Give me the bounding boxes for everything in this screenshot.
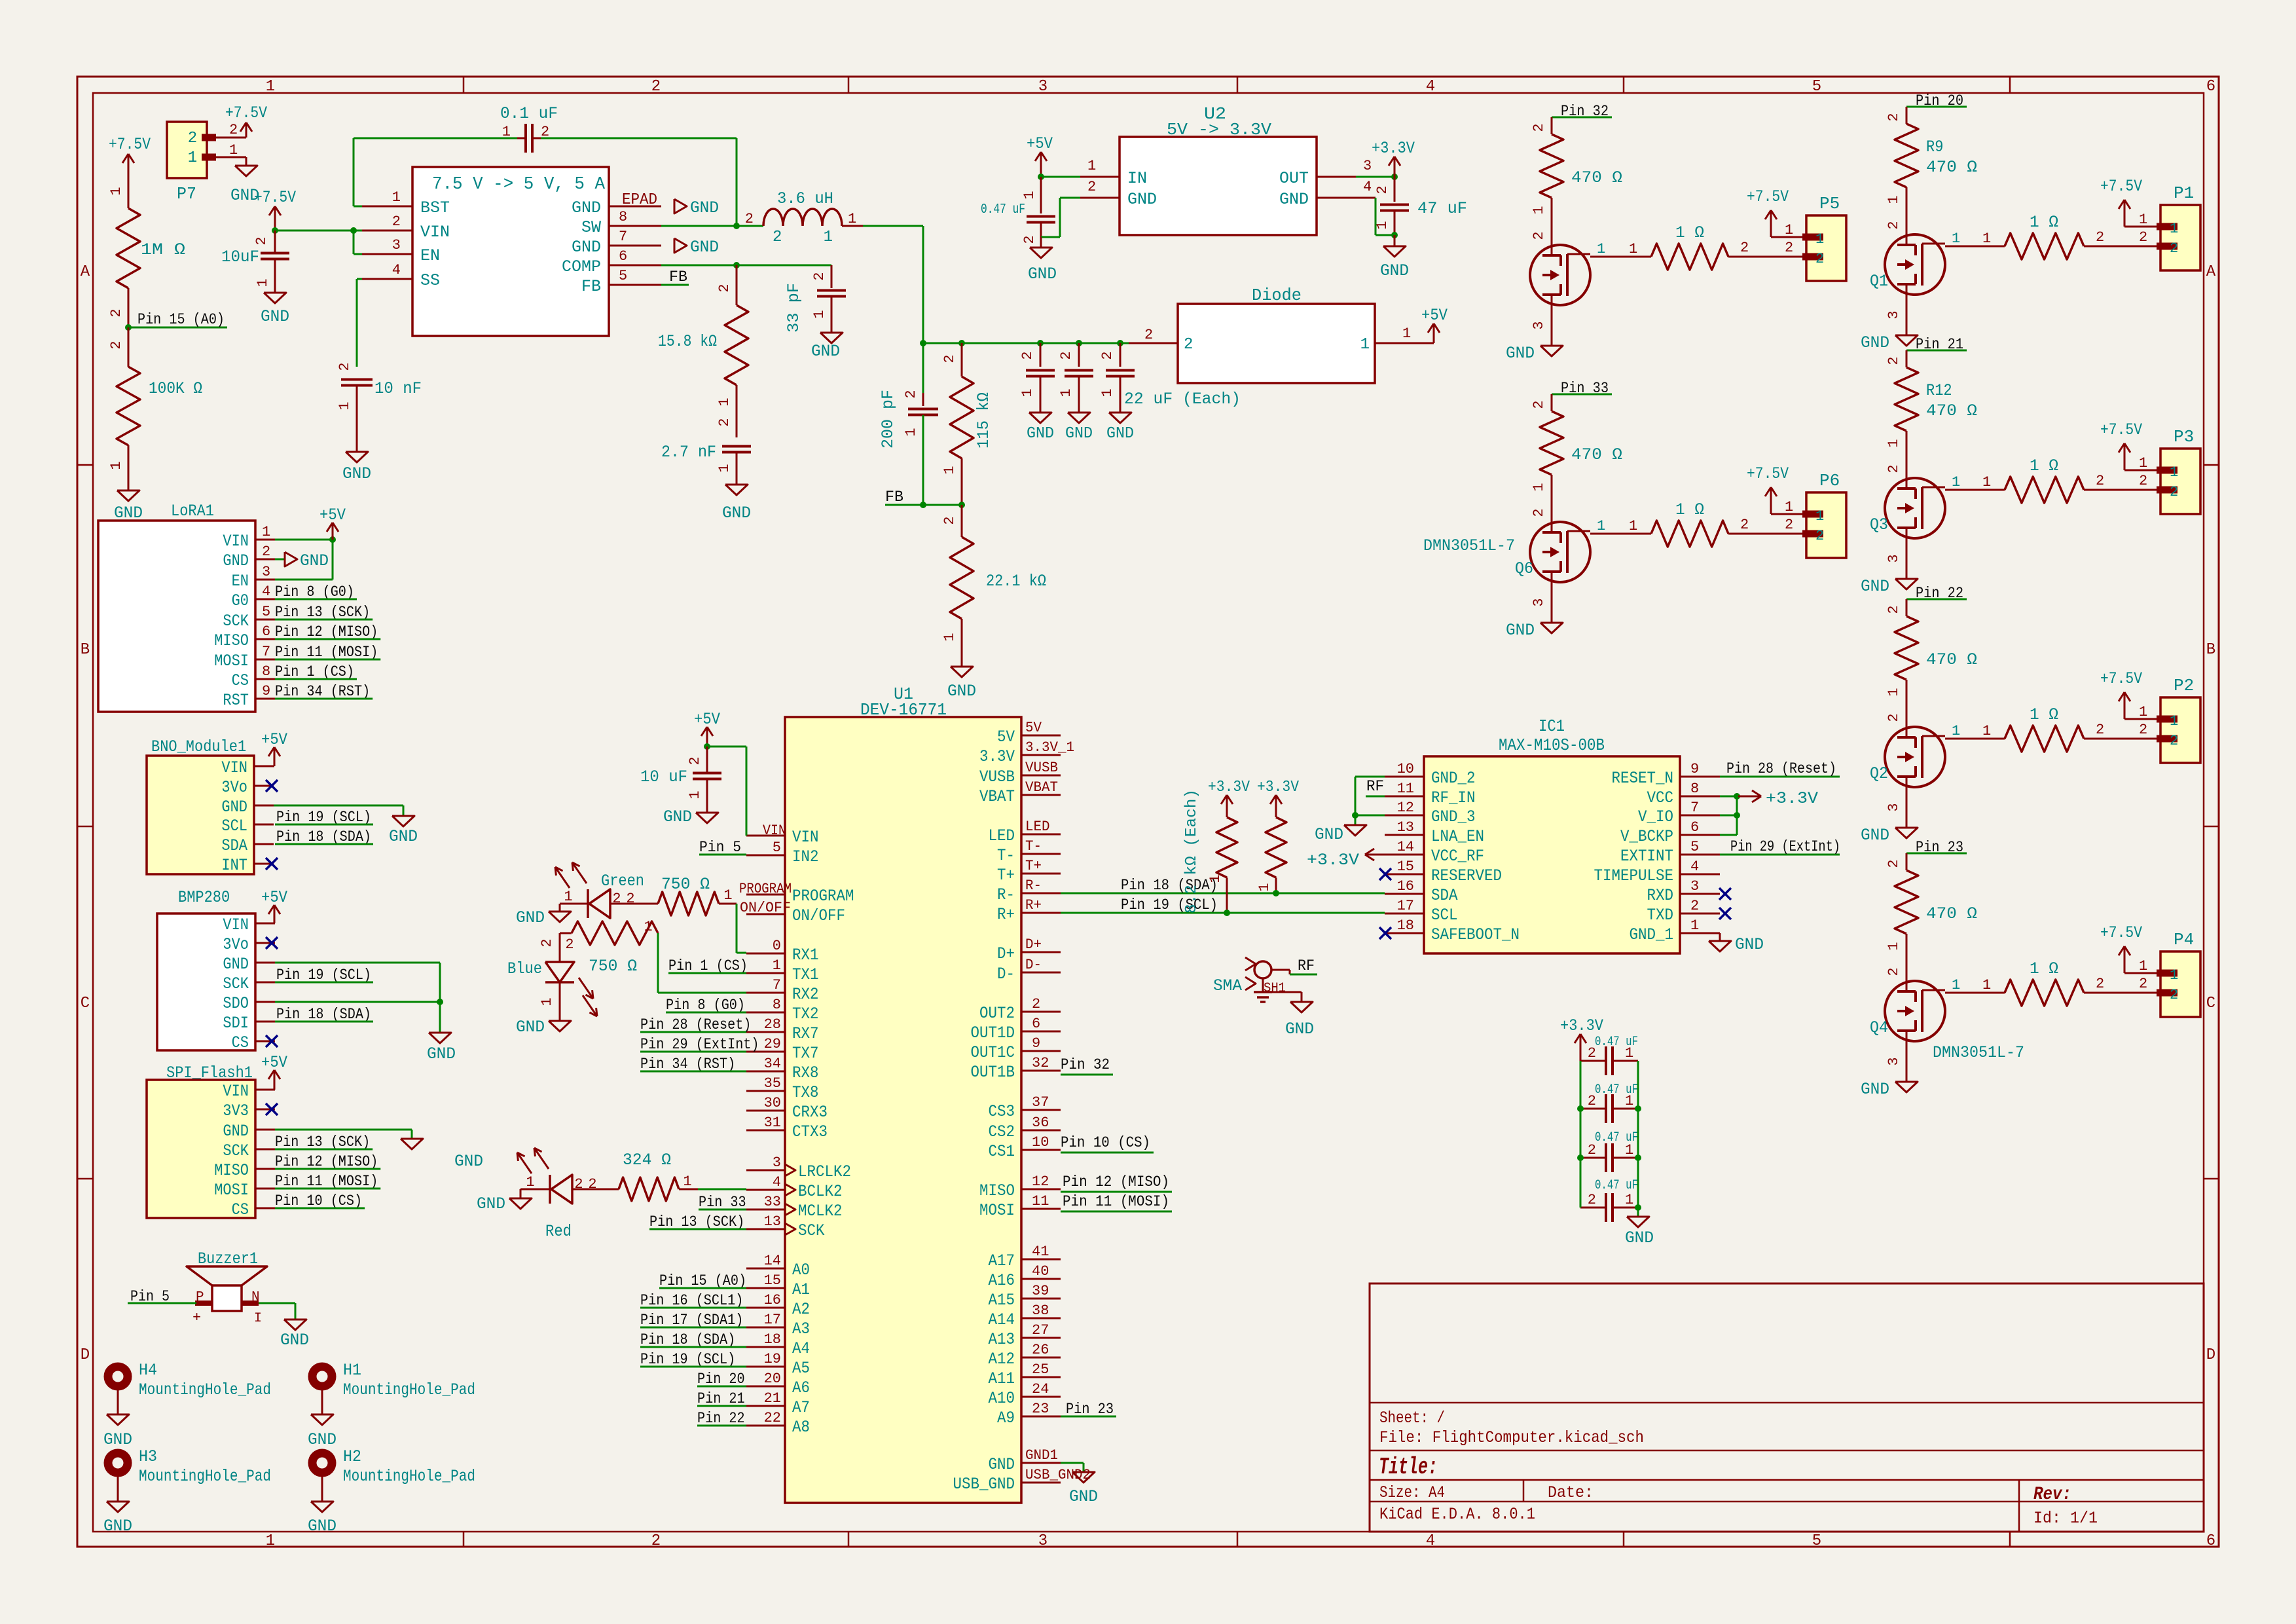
power +5V BMP280	[261, 888, 287, 923]
svg-text:File: FlightComputer.kicad_sch: File: FlightComputer.kicad_sch	[1379, 1428, 1644, 1447]
svg-text:D: D	[81, 1346, 90, 1364]
svg-text:OUT1D: OUT1D	[971, 1024, 1015, 1043]
svg-text:VCC_RF: VCC_RF	[1431, 847, 1484, 866]
capacitor stack 0.47uF x4	[1577, 1035, 1641, 1222]
svg-text:P7: P7	[177, 184, 196, 204]
svg-text:B: B	[2206, 641, 2215, 659]
svg-text:GND: GND	[1315, 825, 1343, 844]
svg-text:MountingHole_Pad: MountingHole_Pad	[139, 1467, 271, 1486]
svg-text:1: 1	[1886, 688, 1902, 696]
svg-text:VBAT: VBAT	[1025, 779, 1058, 796]
svg-text:SCK: SCK	[223, 612, 249, 631]
svg-text:3: 3	[1531, 321, 1547, 329]
svg-text:GND: GND	[1861, 826, 1889, 845]
wire EN LoRA1	[275, 540, 333, 580]
svg-text:470 Ω: 470 Ω	[1571, 168, 1622, 187]
svg-text:RESET_N: RESET_N	[1612, 769, 1674, 788]
svg-text:1: 1	[1019, 388, 1036, 397]
power +3.3V pullup B	[1257, 779, 1300, 817]
svg-text:C: C	[2206, 995, 2215, 1012]
svg-text:2: 2	[1886, 356, 1902, 365]
svg-text:Pin 19 (SCL): Pin 19 (SCL)	[276, 967, 371, 984]
svg-text:A1: A1	[792, 1280, 810, 1299]
svg-text:1: 1	[1886, 439, 1902, 447]
svg-text:CS: CS	[232, 1200, 249, 1219]
svg-text:1: 1	[1629, 518, 1637, 534]
svg-text:OUT: OUT	[1279, 169, 1309, 188]
svg-text:N: N	[251, 1290, 260, 1305]
svg-text:2: 2	[2096, 722, 2104, 738]
svg-text:1: 1	[1625, 1192, 1633, 1208]
svg-text:2: 2	[1531, 508, 1547, 517]
svg-text:Pin 12 (MISO): Pin 12 (MISO)	[1063, 1173, 1169, 1190]
svg-text:2: 2	[1785, 240, 1793, 256]
gnd red led	[477, 1189, 550, 1213]
label Pin 19 (SCL) U1	[640, 1351, 746, 1368]
resistor 1 Ohm Pin 33	[1651, 500, 1728, 547]
svg-text:MOSI: MOSI	[214, 652, 249, 671]
svg-text:P4: P4	[2174, 930, 2194, 950]
svg-text:14: 14	[1397, 839, 1414, 855]
svg-text:34: 34	[764, 1056, 781, 1072]
wire	[658, 933, 746, 993]
svg-text:EN: EN	[420, 246, 440, 265]
connector P4	[2157, 930, 2200, 1017]
svg-text:2: 2	[253, 236, 270, 245]
svg-text:TIMEPULSE: TIMEPULSE	[1594, 866, 1674, 885]
svg-text:2: 2	[1740, 517, 1749, 533]
ground buzzer	[280, 1319, 309, 1350]
svg-text:2: 2	[941, 354, 958, 363]
svg-text:GND: GND	[1861, 333, 1889, 352]
svg-text:15.8 kΩ: 15.8 kΩ	[658, 332, 717, 351]
svg-text:DMN3051L-7: DMN3051L-7	[1933, 1043, 2024, 1062]
svg-text:A8: A8	[792, 1418, 810, 1437]
svg-text:T-: T-	[1025, 838, 1042, 855]
svg-text:1: 1	[1952, 723, 1960, 739]
wire	[259, 1303, 295, 1319]
svg-text:1: 1	[1058, 388, 1074, 397]
svg-text:17: 17	[1397, 898, 1414, 914]
svg-text:2: 2	[229, 122, 238, 138]
wire	[1129, 327, 1178, 343]
wire	[1886, 680, 1906, 727]
svg-text:+3.3V: +3.3V	[1766, 789, 1818, 808]
svg-text:D+: D+	[997, 944, 1015, 963]
svg-text:9: 9	[1032, 1035, 1040, 1052]
svg-text:7: 7	[619, 229, 627, 245]
svg-text:1: 1	[848, 211, 856, 227]
svg-text:1: 1	[1099, 388, 1116, 397]
svg-text:GND: GND	[427, 1044, 456, 1063]
svg-text:1: 1	[1690, 917, 1699, 934]
label Pin 34 (RST) LoRA1	[275, 683, 373, 700]
svg-text:2: 2	[108, 341, 124, 349]
svg-text:2: 2	[2139, 229, 2147, 246]
wire	[1041, 198, 1080, 237]
svg-text:VIN: VIN	[221, 758, 247, 777]
svg-text:2: 2	[1531, 123, 1547, 132]
svg-text:1: 1	[1982, 231, 1991, 247]
wire	[661, 225, 763, 227]
svg-text:Pin 15 (A0): Pin 15 (A0)	[137, 311, 225, 328]
svg-text:3: 3	[1886, 803, 1902, 811]
svg-text:2: 2	[1087, 179, 1096, 195]
svg-text:GND: GND	[308, 1430, 337, 1449]
svg-text:470 Ω: 470 Ω	[1571, 445, 1622, 464]
svg-text:1: 1	[723, 887, 732, 904]
svg-text:Pin 28 (Reset): Pin 28 (Reset)	[1726, 760, 1836, 777]
svg-text:R-: R-	[1025, 877, 1042, 894]
mounting hole H2	[312, 1447, 475, 1486]
svg-text:3: 3	[1886, 310, 1902, 319]
svg-text:2: 2	[2139, 722, 2147, 738]
svg-text:GND: GND	[947, 682, 976, 701]
svg-text:Pin 11 (MOSI): Pin 11 (MOSI)	[275, 644, 378, 661]
svg-text:2: 2	[903, 390, 919, 398]
wire SS	[357, 279, 362, 367]
wire	[128, 288, 130, 327]
svg-text:Pin 33: Pin 33	[699, 1194, 746, 1211]
gnd P7 pin1	[230, 157, 259, 205]
wire	[2084, 229, 2160, 246]
svg-text:RX2: RX2	[792, 985, 819, 1004]
svg-text:EXTINT: EXTINT	[1620, 847, 1673, 866]
svg-text:Pin 19 (SCL): Pin 19 (SCL)	[640, 1351, 735, 1368]
gnd source Pin 20	[1861, 295, 1918, 352]
label Pin 32 U1	[1061, 1056, 1113, 1075]
svg-text:R-: R-	[997, 885, 1015, 904]
led Green	[555, 862, 644, 918]
label Pin 18 (SDA) BNO	[275, 828, 373, 845]
label Pin 11 (MOSI) SPI	[275, 1173, 380, 1190]
svg-text:TX1: TX1	[792, 965, 819, 984]
svg-text:3: 3	[1886, 554, 1902, 563]
svg-text:1: 1	[1374, 221, 1391, 229]
svg-text:2: 2	[337, 362, 353, 371]
wire	[539, 933, 572, 948]
svg-text:SH1: SH1	[1264, 981, 1286, 996]
power +5V LoRA1	[275, 506, 346, 543]
svg-text:13: 13	[764, 1213, 781, 1230]
power +3.3V stack	[1560, 1016, 1603, 1061]
svg-text:17: 17	[764, 1312, 781, 1328]
svg-text:2: 2	[1021, 235, 1038, 244]
svg-text:+7.5V: +7.5V	[1747, 464, 1789, 483]
diode module	[1178, 286, 1375, 383]
wire	[1041, 176, 1080, 178]
svg-text:2: 2	[1886, 464, 1902, 473]
svg-text:LRCLK2: LRCLK2	[798, 1162, 851, 1181]
wire gate	[1590, 518, 1651, 534]
power +5V diode	[1421, 306, 1448, 343]
power +5V U1	[694, 710, 720, 747]
svg-text:1: 1	[1531, 206, 1547, 214]
label Pin 15 (A0) U1	[659, 1272, 746, 1289]
wire	[1886, 431, 1906, 478]
svg-text:Pin 19 (SCL): Pin 19 (SCL)	[276, 809, 371, 826]
svg-text:Q4: Q4	[1870, 1018, 1888, 1037]
svg-text:GND: GND	[690, 198, 719, 217]
svg-text:40: 40	[1032, 1263, 1049, 1280]
wire	[2084, 976, 2160, 993]
svg-text:3: 3	[1038, 78, 1048, 96]
svg-text:SCK: SCK	[223, 974, 249, 993]
svg-text:1: 1	[716, 464, 733, 472]
svg-text:Pin 10 (CS): Pin 10 (CS)	[1061, 1134, 1150, 1151]
svg-text:4: 4	[1363, 179, 1372, 195]
svg-text:1: 1	[2139, 958, 2147, 974]
svg-text:MISO: MISO	[214, 631, 249, 650]
svg-text:B: B	[81, 641, 90, 659]
svg-text:SAFEBOOT_N: SAFEBOOT_N	[1431, 925, 1520, 944]
wire BST loop	[354, 138, 526, 206]
svg-text:Pin 34 (RST): Pin 34 (RST)	[640, 1056, 735, 1073]
svg-text:GND: GND	[223, 955, 249, 974]
svg-text:1: 1	[2139, 212, 2147, 228]
label Pin 11 (MOSI) LoRA1	[275, 644, 380, 661]
svg-text:+5V: +5V	[261, 1053, 287, 1072]
svg-text:GND: GND	[1735, 935, 1764, 954]
wire	[1728, 517, 1806, 534]
gnd U1	[1061, 1463, 1098, 1506]
label Pin 19 (SCL) BMP	[275, 967, 373, 984]
svg-text:Pin 34 (RST): Pin 34 (RST)	[275, 683, 370, 700]
svg-text:Pin 29 (ExtInt): Pin 29 (ExtInt)	[640, 1036, 759, 1053]
svg-text:SDA: SDA	[221, 836, 247, 855]
svg-text:Pin 28 (Reset): Pin 28 (Reset)	[640, 1016, 751, 1033]
svg-text:+3.3V: +3.3V	[1257, 779, 1300, 796]
svg-text:V_IO: V_IO	[1638, 807, 1673, 826]
svg-text:2: 2	[1588, 1093, 1596, 1109]
svg-text:2: 2	[651, 1532, 661, 1550]
label Pin 10 (CS) SPI	[275, 1192, 365, 1209]
svg-text:470 Ω: 470 Ω	[1926, 401, 1977, 420]
svg-text:GND: GND	[1861, 577, 1889, 596]
svg-text:A: A	[2206, 263, 2216, 281]
connector P5	[1802, 194, 1846, 281]
svg-text:Date:: Date:	[1548, 1483, 1594, 1502]
svg-text:SW: SW	[581, 218, 601, 237]
led Red	[517, 1148, 583, 1241]
module BMP280	[157, 888, 275, 1052]
svg-text:5: 5	[1690, 839, 1699, 855]
svg-text:470 Ω: 470 Ω	[1926, 904, 1977, 923]
svg-text:+5V: +5V	[319, 506, 346, 525]
svg-text:GND: GND	[261, 307, 289, 326]
mounting hole H3	[108, 1447, 271, 1486]
gnd flag EPAD	[674, 198, 719, 217]
svg-text:Sheet: /: Sheet: /	[1379, 1409, 1445, 1428]
svg-text:13: 13	[1397, 819, 1414, 836]
svg-text:1: 1	[824, 229, 833, 246]
svg-text:0.1 uF: 0.1 uF	[500, 104, 558, 123]
svg-text:4: 4	[392, 262, 401, 278]
wire	[1886, 187, 1906, 234]
junction	[704, 743, 710, 750]
svg-text:37: 37	[1032, 1094, 1049, 1111]
svg-text:GND: GND	[516, 1018, 545, 1037]
svg-text:LNA_EN: LNA_EN	[1431, 827, 1484, 846]
svg-text:115 kΩ: 115 kΩ	[974, 392, 993, 449]
svg-text:P6: P6	[1819, 471, 1840, 490]
svg-text:15: 15	[764, 1272, 781, 1289]
svg-text:21: 21	[764, 1390, 781, 1407]
svg-text:RF: RF	[1366, 778, 1384, 795]
svg-text:10: 10	[1397, 761, 1414, 777]
svg-text:SCL: SCL	[1431, 906, 1458, 925]
svg-text:Pin 1 (CS): Pin 1 (CS)	[668, 957, 748, 974]
svg-text:Q6: Q6	[1515, 559, 1533, 578]
svg-text:TX7: TX7	[792, 1044, 819, 1063]
gnd BNO	[274, 805, 418, 846]
gnd SPI_Flash1	[275, 1130, 483, 1171]
svg-text:IN2: IN2	[792, 847, 819, 866]
svg-text:8: 8	[1690, 781, 1699, 797]
svg-text:+3.3V: +3.3V	[1372, 139, 1415, 158]
label Pin 12 (MISO) SPI	[275, 1153, 380, 1170]
title block	[1370, 1283, 2204, 1532]
svg-text:1: 1	[108, 187, 124, 195]
connector P2	[2157, 676, 2200, 763]
resistor R9 Pin 20	[1886, 107, 1977, 204]
svg-text:2: 2	[2170, 987, 2178, 1003]
svg-text:2: 2	[1690, 898, 1699, 914]
svg-text:0.47 uF: 0.47 uF	[1595, 1178, 1638, 1193]
svg-text:30: 30	[764, 1095, 781, 1111]
svg-text:Blue: Blue	[507, 959, 542, 978]
label Pin 32	[1552, 103, 1612, 120]
svg-text:Pin 21: Pin 21	[697, 1390, 745, 1407]
svg-text:GND_2: GND_2	[1431, 769, 1476, 788]
label Pin 28 (Reset)	[1720, 760, 1840, 777]
label Pin 13 (SCK) SPI	[275, 1134, 373, 1151]
label Pin 18 (SDA) BMP	[275, 1006, 373, 1023]
svg-text:Pin 29 (ExtInt): Pin 29 (ExtInt)	[1730, 838, 1840, 855]
svg-text:SS: SS	[420, 271, 440, 290]
label Pin 20	[1906, 92, 1967, 109]
svg-text:2.7 nF: 2.7 nF	[661, 443, 716, 462]
svg-text:2: 2	[2170, 733, 2178, 749]
ground stack	[1625, 1208, 1654, 1247]
svg-text:5: 5	[773, 840, 781, 856]
svg-text:VIN: VIN	[420, 223, 450, 242]
module SPI_Flash1	[147, 1063, 275, 1219]
svg-text:1: 1	[683, 1173, 691, 1190]
svg-text:3.6 uH: 3.6 uH	[777, 189, 833, 208]
svg-text:FB: FB	[669, 268, 687, 286]
junction	[733, 262, 740, 268]
svg-text:GND1: GND1	[1025, 1447, 1058, 1464]
wire SW to cap	[532, 138, 737, 226]
wire	[1356, 176, 1394, 178]
svg-text:1: 1	[108, 461, 124, 470]
label Pin 21 U1	[697, 1390, 746, 1407]
svg-text:GND: GND	[1506, 344, 1535, 363]
svg-text:MountingHole_Pad: MountingHole_Pad	[343, 1380, 475, 1399]
svg-text:3.3V_1: 3.3V_1	[1025, 739, 1074, 756]
svg-text:2: 2	[2096, 976, 2104, 992]
svg-text:BST: BST	[420, 198, 450, 217]
no-connect SPI 3V3	[266, 1103, 278, 1115]
resistor 470 Ω Pin 33	[1531, 394, 1622, 492]
svg-text:C: C	[81, 995, 90, 1012]
wire	[2084, 473, 2160, 490]
svg-text:5V: 5V	[1025, 720, 1042, 736]
svg-text:39: 39	[1032, 1283, 1049, 1299]
label Pin 29 (ExtInt) U1	[640, 1036, 759, 1053]
wire	[1886, 934, 1906, 981]
wire gate	[1945, 723, 2005, 739]
node Pin 15 (A0) divider tap	[125, 311, 227, 331]
svg-text:1: 1	[1982, 474, 1991, 490]
svg-text:A4: A4	[792, 1339, 810, 1358]
label Pin 22	[1906, 585, 1967, 602]
svg-text:2: 2	[2139, 473, 2147, 489]
wire	[275, 230, 362, 232]
gnd blue led	[516, 1018, 571, 1037]
label Pin 1 (CS) U1	[668, 957, 748, 974]
svg-text:0.47 uF: 0.47 uF	[981, 202, 1025, 217]
svg-text:9: 9	[262, 683, 270, 699]
svg-text:1: 1	[1625, 1093, 1633, 1109]
svg-text:USB_GND: USB_GND	[953, 1475, 1015, 1494]
svg-text:VUSB: VUSB	[1025, 760, 1058, 776]
label Pin 29 (ExtInt)	[1720, 838, 1840, 855]
svg-text:14: 14	[764, 1253, 781, 1269]
svg-text:CS: CS	[232, 1033, 249, 1052]
svg-text:1: 1	[255, 278, 271, 287]
svg-text:GND: GND	[1028, 265, 1057, 284]
svg-text:2: 2	[941, 516, 958, 525]
svg-text:R+: R+	[1025, 897, 1042, 913]
svg-text:D-: D-	[1025, 957, 1042, 973]
resistor 1 Ohm Pin 23	[2005, 959, 2084, 1006]
capacitor 10uF input	[221, 231, 289, 293]
junction	[1391, 232, 1398, 238]
gnd H4	[103, 1390, 132, 1449]
wire SDA net	[1061, 877, 1385, 894]
svg-text:3: 3	[1690, 878, 1699, 895]
svg-text:EPAD: EPAD	[622, 191, 657, 209]
svg-text:Green: Green	[601, 872, 644, 891]
regulator U 7.5V to 5V	[362, 167, 661, 336]
svg-text:10 uF: 10 uF	[640, 767, 687, 786]
wire	[128, 445, 130, 490]
svg-text:A5: A5	[792, 1359, 810, 1378]
svg-text:6: 6	[1690, 819, 1699, 836]
svg-text:1: 1	[1952, 977, 1960, 993]
svg-text:2: 2	[1740, 240, 1749, 256]
svg-text:RX8: RX8	[792, 1063, 819, 1082]
svg-text:A17: A17	[989, 1251, 1015, 1270]
wire	[1531, 198, 1552, 245]
svg-text:A6: A6	[792, 1378, 810, 1397]
resistor 15.8k	[658, 265, 748, 407]
svg-text:1: 1	[1087, 158, 1096, 174]
svg-text:R12: R12	[1926, 381, 1952, 400]
label Pin 20 U1	[697, 1371, 746, 1388]
resistor R12 Pin 21	[1886, 350, 1977, 448]
svg-text:H4: H4	[139, 1361, 157, 1380]
svg-text:GND: GND	[572, 238, 601, 257]
svg-text:Pin 11 (MOSI): Pin 11 (MOSI)	[1063, 1193, 1169, 1210]
svg-text:RF: RF	[1298, 957, 1315, 974]
svg-text:324 Ω: 324 Ω	[623, 1151, 671, 1170]
svg-text:GND: GND	[1380, 261, 1409, 280]
transistor Q2 Pin 22	[1870, 727, 1945, 787]
svg-text:2: 2	[1184, 336, 1193, 354]
